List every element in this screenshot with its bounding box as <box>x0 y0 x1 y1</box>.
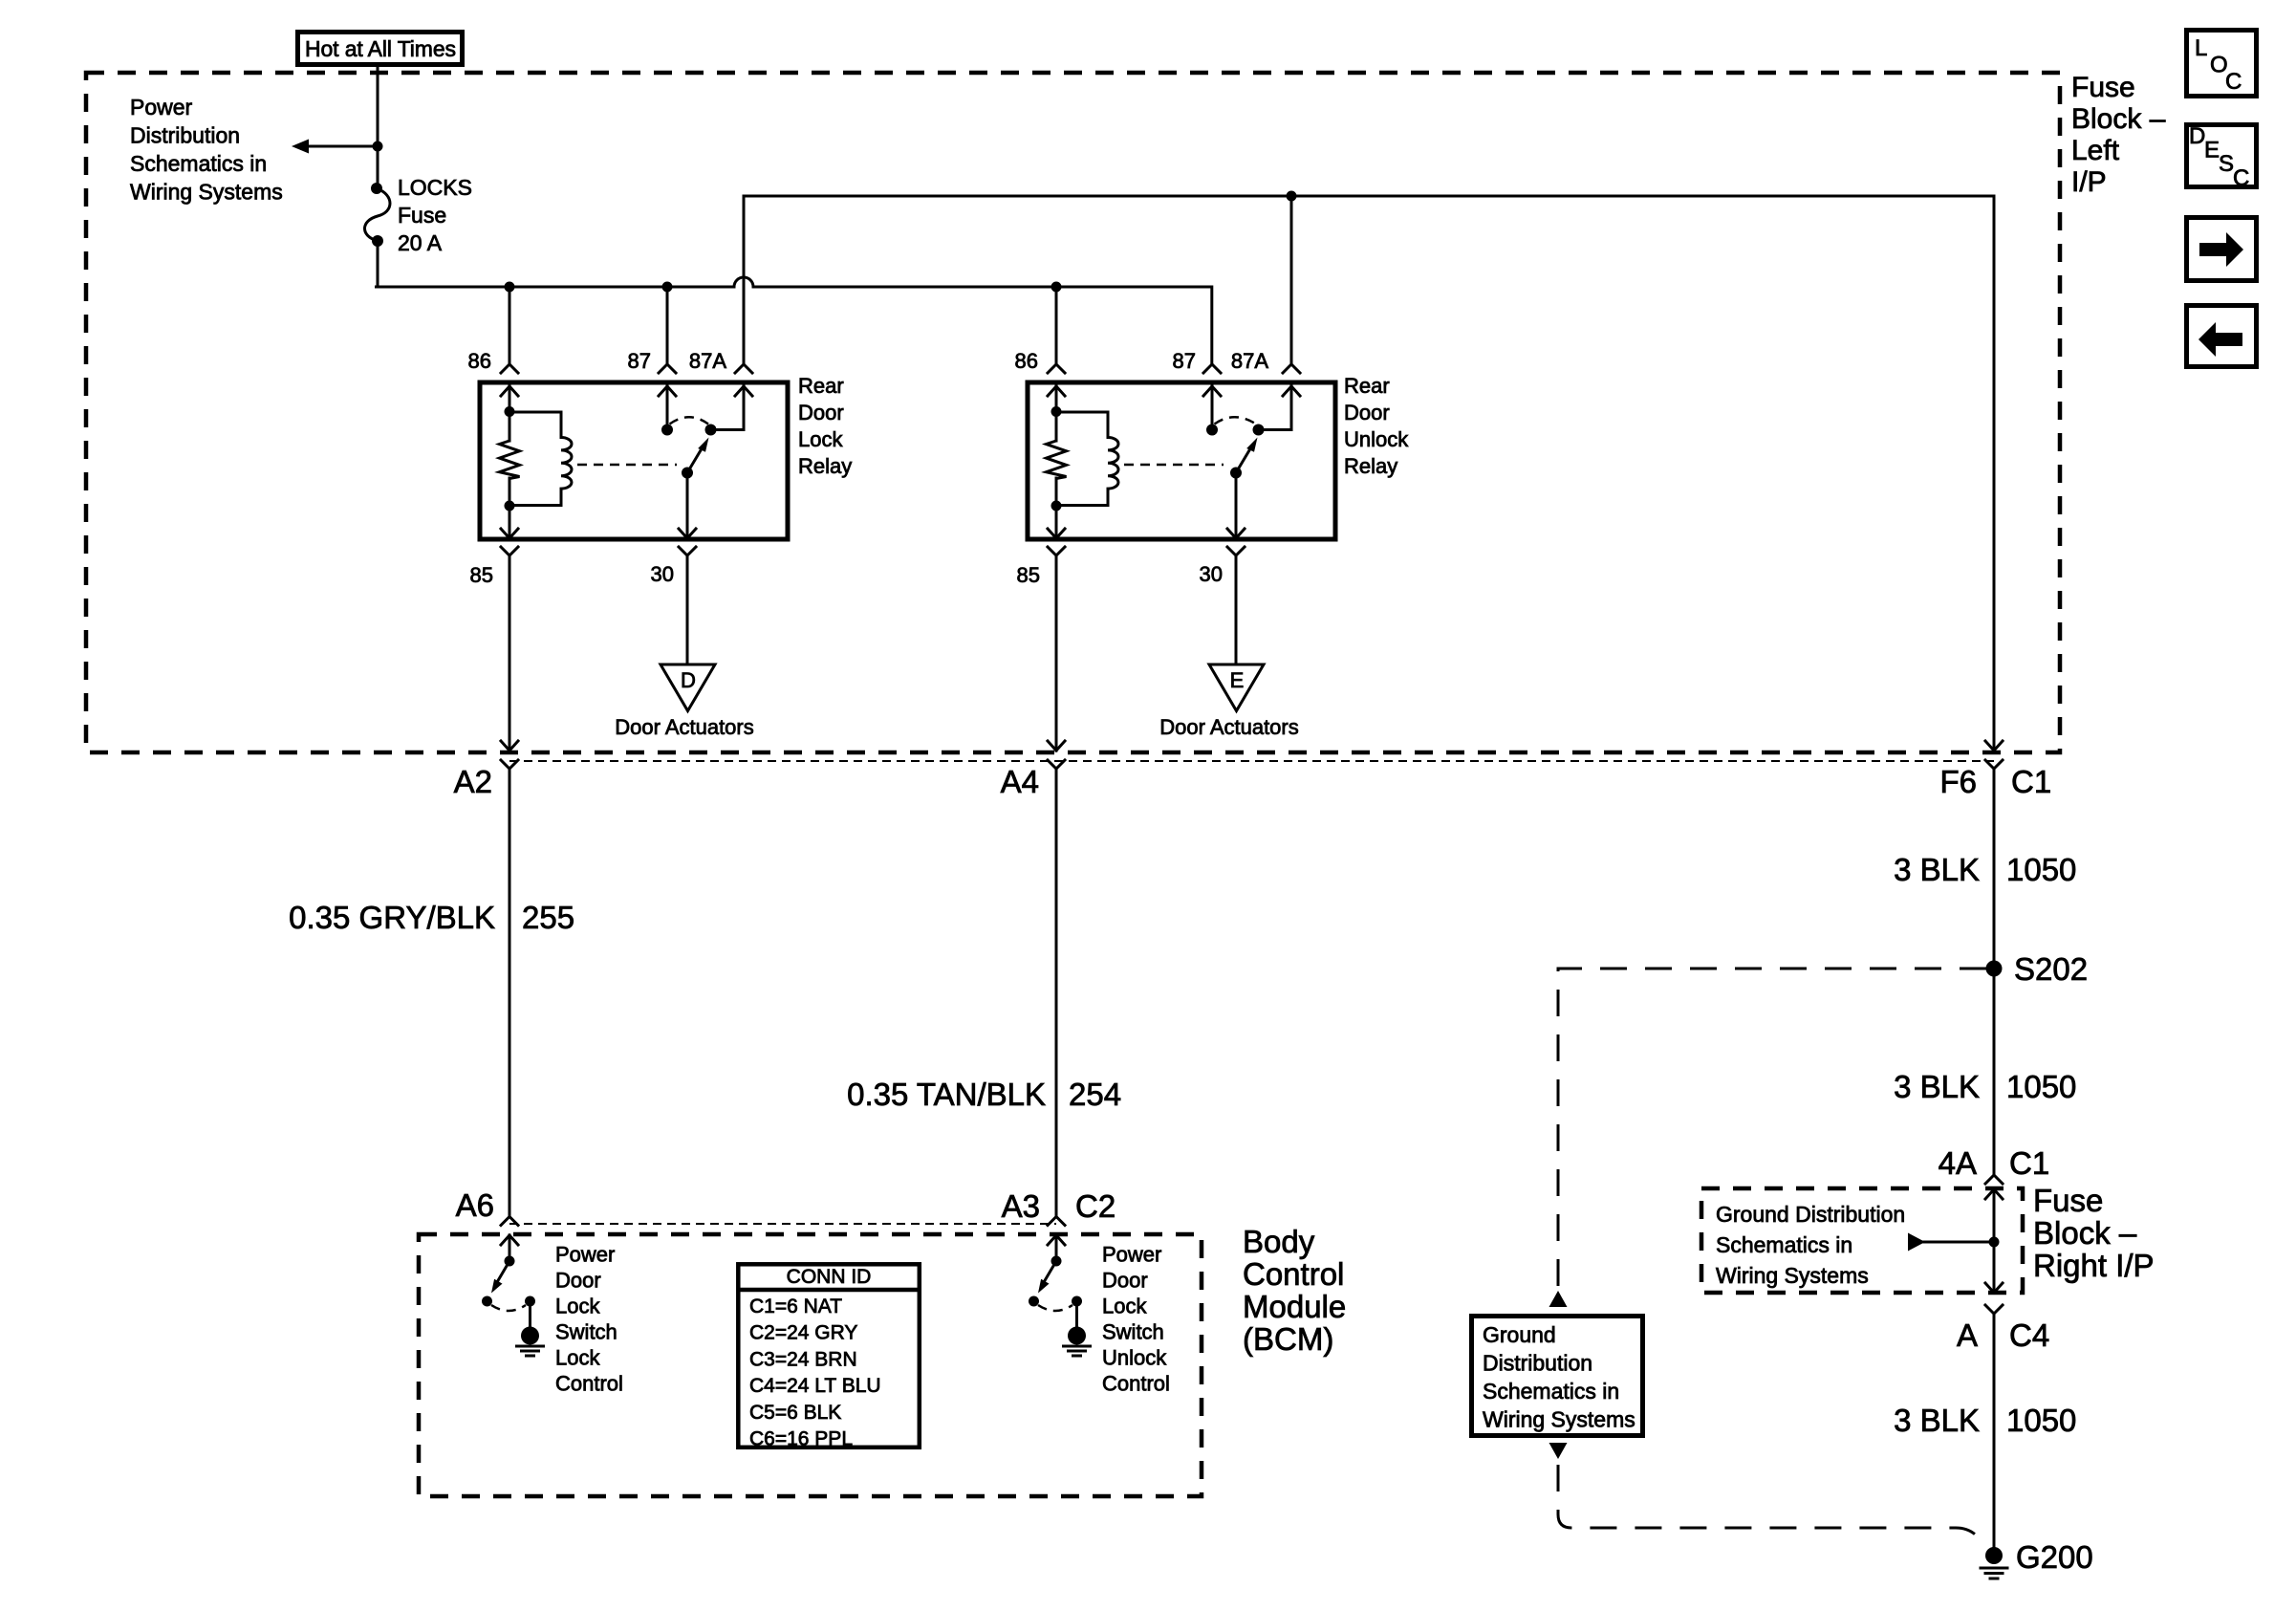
pin 87 connector <box>1203 364 1221 373</box>
svg-text:D: D <box>681 668 696 692</box>
wire: relay1 pin85 down to A2 <box>509 555 511 751</box>
svg-text:C1: C1 <box>2009 1145 2049 1181</box>
resistor (suppression) <box>1055 411 1058 441</box>
svg-text:Body: Body <box>1243 1224 1315 1259</box>
note: Power Distribution Schematics in Wiring Systems <box>130 95 283 205</box>
pin 87 connector <box>659 364 676 373</box>
svg-text:Distribution: Distribution <box>130 123 240 148</box>
dashed link: coil to switch <box>577 464 677 467</box>
node: contact (open) <box>1029 1296 1039 1307</box>
svg-text:85: 85 <box>470 563 493 587</box>
arrow up into ground distribution note <box>1549 1291 1568 1307</box>
svg-text:D: D <box>2189 123 2205 149</box>
ground G200 symbol <box>1981 1547 2007 1578</box>
svg-text:Unlock: Unlock <box>1344 427 1409 451</box>
svg-text:Control: Control <box>1243 1256 1344 1292</box>
dashed arc between contacts <box>1038 1305 1072 1311</box>
svg-text:Switch: Switch <box>555 1320 617 1344</box>
DESC box <box>2187 123 2257 191</box>
dashed ground distribution path from S202 <box>1558 969 1986 1286</box>
node: junction at relay1 pin86 drop <box>505 282 515 293</box>
svg-text:Schematics in: Schematics in <box>130 151 267 176</box>
svg-text:Rear: Rear <box>798 374 844 398</box>
svg-text:1050: 1050 <box>2006 852 2076 887</box>
svg-text:Relay: Relay <box>1344 454 1397 478</box>
note: Ground Distribution Schematics in Wiring Systems (inside right fuse block) <box>1716 1202 1905 1288</box>
svg-text:87A: 87A <box>689 349 726 373</box>
svg-text:C: C <box>2233 165 2249 191</box>
svg-text:I/P: I/P <box>2071 166 2107 198</box>
ground: switch ball ground <box>1064 1327 1091 1357</box>
wire: contact 87A to pin 87A <box>711 386 745 430</box>
switch arm (to pin 30) <box>682 468 693 479</box>
svg-text:87: 87 <box>1173 349 1196 373</box>
svg-text:C2=24 GRY: C2=24 GRY <box>749 1322 857 1344</box>
relay box <box>480 382 788 539</box>
CONN ID table <box>738 1264 920 1449</box>
svg-text:G200: G200 <box>2016 1539 2093 1575</box>
node: junction inside fuse block right <box>1989 1237 2000 1248</box>
connector F6 (male into border) <box>1985 741 2003 751</box>
wire: contact 87A to pin 87A <box>1259 386 1292 430</box>
node: coil bottom <box>1051 501 1062 512</box>
svg-text:Fuse: Fuse <box>2033 1183 2103 1218</box>
wire: contact to ball ground <box>529 1301 531 1329</box>
svg-text:86: 86 <box>1015 349 1038 373</box>
node: switch common <box>505 1256 515 1267</box>
switch arm <box>1044 1261 1057 1283</box>
svg-text:LOCKS: LOCKS <box>398 175 472 200</box>
svg-text:E: E <box>2204 138 2220 163</box>
svg-text:C5=6 BLK: C5=6 BLK <box>749 1402 841 1424</box>
note box: Ground Distribution Schematics in Wiring Systems (left) <box>1472 1317 1643 1436</box>
node: contact 87A <box>1253 425 1265 436</box>
dashed arc between contacts <box>1215 417 1257 424</box>
wire: relay1 pin30 to door actuators D <box>686 555 689 664</box>
label: Fuse Block - Right I/P <box>2033 1183 2155 1283</box>
node: contact 87 <box>1206 425 1218 436</box>
svg-text:20 A: 20 A <box>398 230 443 255</box>
svg-text:(BCM): (BCM) <box>1243 1321 1333 1357</box>
svg-text:0.35 GRY/BLK: 0.35 GRY/BLK <box>289 900 495 935</box>
svg-text:A4: A4 <box>1001 764 1039 799</box>
male arrow out of fuse block right (bottom) <box>1985 1283 2003 1293</box>
svg-text:Fuse: Fuse <box>2071 72 2135 103</box>
svg-text:Module: Module <box>1243 1289 1346 1324</box>
svg-text:C2: C2 <box>1075 1188 1116 1224</box>
fuse block right I/P dashed outline <box>1701 1188 2023 1293</box>
svg-text:S202: S202 <box>2014 951 2088 987</box>
relay coil <box>1056 412 1118 506</box>
wire: relay2 pin85 down to A4 <box>1055 555 1058 751</box>
svg-text:Lock: Lock <box>1102 1295 1147 1318</box>
node: splice S202 <box>1986 961 2003 977</box>
svg-text:Door Actuators: Door Actuators <box>615 715 754 739</box>
svg-text:Door: Door <box>798 401 844 425</box>
svg-text:4A: 4A <box>1939 1145 1977 1181</box>
thin dashed connector line C1 <box>509 760 1994 762</box>
relay name label <box>1344 374 1409 478</box>
svg-text:Wiring Systems: Wiring Systems <box>130 180 283 205</box>
relay coil <box>509 412 572 506</box>
svg-text:C4=24 LT BLU: C4=24 LT BLU <box>749 1375 881 1397</box>
node: junction at relay2 pin86 drop <box>1051 282 1062 293</box>
fuse: LOCKS Fuse 20 A <box>365 183 391 247</box>
svg-text:Schematics in: Schematics in <box>1716 1232 1852 1257</box>
switch function label <box>1102 1243 1170 1396</box>
body control module dashed outline <box>419 1234 1202 1496</box>
wire: relay2 pin86 drop <box>1055 287 1058 364</box>
svg-text:Block –: Block – <box>2071 103 2166 135</box>
thin dashed connector line C2 <box>509 1223 1056 1225</box>
male arrow into fuse block right (top) <box>1985 1189 2003 1199</box>
svg-text:0.35 TAN/BLK: 0.35 TAN/BLK <box>847 1077 1046 1112</box>
svg-text:F6: F6 <box>1939 764 1977 799</box>
svg-text:Power: Power <box>1102 1243 1161 1267</box>
svg-text:Block –: Block – <box>2033 1215 2137 1251</box>
connector A/C4 female + wire down to G200 <box>1985 1305 2003 1314</box>
pin 85 connector <box>1048 529 1065 538</box>
node: junction at relay1 pin87 drop <box>662 282 673 293</box>
label: Body Control Module (BCM) <box>1243 1224 1346 1357</box>
pin 86 connector <box>501 364 518 373</box>
pin 87A connector <box>1283 364 1300 373</box>
node: contact (open) <box>482 1296 492 1307</box>
node: junction at relay2 pin87A drop <box>1287 191 1297 202</box>
off-page connector E (door actuators) <box>1209 664 1264 711</box>
svg-text:Door Actuators: Door Actuators <box>1159 715 1299 739</box>
svg-text:86: 86 <box>468 349 491 373</box>
connector A4 (male into border) <box>1048 741 1065 751</box>
pin 30 connector <box>1227 529 1245 538</box>
svg-text:Control: Control <box>555 1372 623 1396</box>
node: power distribution tap junction <box>373 142 383 152</box>
pin 85 connector <box>501 529 518 538</box>
connector 4A/C1 female fork <box>1985 1175 2003 1184</box>
wire: contact to ball ground <box>1075 1301 1078 1329</box>
prev-page arrow box <box>2187 306 2257 367</box>
svg-text:S: S <box>2219 151 2234 177</box>
wire: 87A bus from relay1 to right side <box>744 196 1994 751</box>
svg-text:Unlock: Unlock <box>1102 1346 1167 1370</box>
switch function label <box>555 1243 623 1396</box>
svg-text:Lock: Lock <box>555 1295 600 1318</box>
wire: tap to ground distribution (triangle) <box>1908 1233 1994 1252</box>
wire: Hot at All Times down to fuse <box>377 67 379 188</box>
svg-text:1050: 1050 <box>2006 1069 2076 1104</box>
dashed arc between contacts <box>491 1305 526 1311</box>
svg-text:Schematics in: Schematics in <box>1483 1379 1619 1404</box>
connector A2 (male into border) <box>501 741 518 751</box>
svg-text:A: A <box>1957 1317 1978 1353</box>
svg-text:85: 85 <box>1017 563 1040 587</box>
svg-text:C: C <box>2225 69 2242 95</box>
wire: relay1 pin87 drop <box>666 287 669 364</box>
svg-text:Rear: Rear <box>1344 374 1390 398</box>
connector A4 female + wire down <box>1048 760 1065 769</box>
svg-text:Ground Distribution: Ground Distribution <box>1716 1202 1905 1227</box>
svg-text:Door: Door <box>1344 401 1390 425</box>
node: contact 87A <box>705 425 717 436</box>
relay box <box>1028 382 1335 539</box>
switch input male arrow <box>1048 1235 1065 1245</box>
svg-text:Switch: Switch <box>1102 1320 1164 1344</box>
svg-text:87: 87 <box>628 349 651 373</box>
svg-text:Relay: Relay <box>798 454 852 478</box>
svg-text:Ground: Ground <box>1483 1322 1556 1347</box>
svg-text:30: 30 <box>1200 562 1223 586</box>
connector F6/C1 female + wire down to S202 <box>1985 760 2003 769</box>
label: Fuse Block - Left I/P <box>2071 72 2166 198</box>
svg-text:C6=16 PPL: C6=16 PPL <box>749 1428 853 1450</box>
svg-text:Door: Door <box>1102 1269 1148 1293</box>
svg-text:3 BLK: 3 BLK <box>1894 1069 1980 1104</box>
switch arm <box>497 1261 510 1283</box>
svg-text:3 BLK: 3 BLK <box>1894 852 1980 887</box>
svg-text:Lock: Lock <box>555 1346 600 1370</box>
svg-text:E: E <box>1230 668 1245 692</box>
dashed ground path to G200 <box>1558 1465 1986 1547</box>
svg-text:255: 255 <box>522 900 574 935</box>
svg-text:Right I/P: Right I/P <box>2033 1248 2155 1283</box>
label: LOCKS Fuse 20 A <box>398 175 472 255</box>
node: contact 87 <box>661 425 673 436</box>
svg-text:C1=6 NAT: C1=6 NAT <box>749 1295 842 1317</box>
node: contact to ground <box>525 1296 535 1307</box>
pin 86 connector <box>1048 364 1065 373</box>
svg-text:87A: 87A <box>1231 349 1268 373</box>
svg-text:30: 30 <box>651 562 674 586</box>
dashed link: coil to switch <box>1124 464 1224 467</box>
svg-text:Hot at All Times: Hot at All Times <box>305 36 456 61</box>
svg-text:C3=24 BRN: C3=24 BRN <box>749 1348 857 1370</box>
svg-text:Lock: Lock <box>798 427 843 451</box>
svg-text:Wiring Systems: Wiring Systems <box>1483 1407 1635 1432</box>
connector A3/C2 female fork <box>1048 1217 1065 1226</box>
svg-text:C4: C4 <box>2009 1317 2049 1353</box>
svg-text:Power: Power <box>555 1243 615 1267</box>
svg-text:L: L <box>2195 35 2207 61</box>
svg-text:Power: Power <box>130 95 193 120</box>
relay name label <box>798 374 852 478</box>
resistor (suppression) <box>509 411 511 441</box>
svg-text:Control: Control <box>1102 1372 1170 1396</box>
svg-text:254: 254 <box>1069 1077 1121 1112</box>
svg-text:Wiring Systems: Wiring Systems <box>1716 1263 1869 1288</box>
svg-text:A6: A6 <box>456 1187 494 1223</box>
ground: switch ball ground <box>517 1327 544 1357</box>
svg-text:3 BLK: 3 BLK <box>1894 1403 1980 1438</box>
wire: relay2 pin30 to door actuators E <box>1235 555 1238 664</box>
svg-text:Left: Left <box>2071 135 2120 166</box>
wire: relay1 pin86 drop <box>509 287 511 364</box>
node: coil top <box>1051 406 1062 417</box>
node: switch common <box>1051 1256 1062 1267</box>
wire: feed bus to relays (with hop over 87A wire) <box>377 277 1212 364</box>
svg-text:Door: Door <box>555 1269 601 1293</box>
svg-text:1050: 1050 <box>2006 1403 2076 1438</box>
node: coil top <box>505 406 515 417</box>
Hot at All Times label box <box>298 33 463 65</box>
off-page connector D (door actuators) <box>661 664 715 711</box>
next-page arrow box <box>2187 218 2257 281</box>
switch input male arrow <box>501 1235 518 1245</box>
wire: fuse output down <box>377 241 379 286</box>
switch arm (to pin 30) <box>1230 468 1242 479</box>
pin 30 connector <box>679 529 696 538</box>
wire: arrow to power distribution schematics <box>292 140 378 154</box>
svg-text:A2: A2 <box>454 764 492 799</box>
arrow down out of ground distribution note <box>1549 1443 1568 1459</box>
svg-text:CONN ID: CONN ID <box>787 1266 872 1288</box>
svg-text:Distribution: Distribution <box>1483 1351 1592 1376</box>
dashed arc between contacts <box>670 417 709 424</box>
svg-text:C1: C1 <box>2011 764 2051 799</box>
connector A6 female fork <box>501 1217 518 1226</box>
node: coil bottom <box>505 501 515 512</box>
node: contact to ground <box>1072 1296 1082 1307</box>
pin 87A connector <box>735 364 752 373</box>
fuse block left I/P dashed outline <box>86 73 2060 752</box>
LOC box <box>2187 31 2257 97</box>
connector A2 female + wire down <box>501 760 518 769</box>
svg-text:A3: A3 <box>1002 1188 1040 1224</box>
wire: relay2 pin87A drop <box>1290 196 1293 364</box>
svg-text:Fuse: Fuse <box>398 203 446 228</box>
